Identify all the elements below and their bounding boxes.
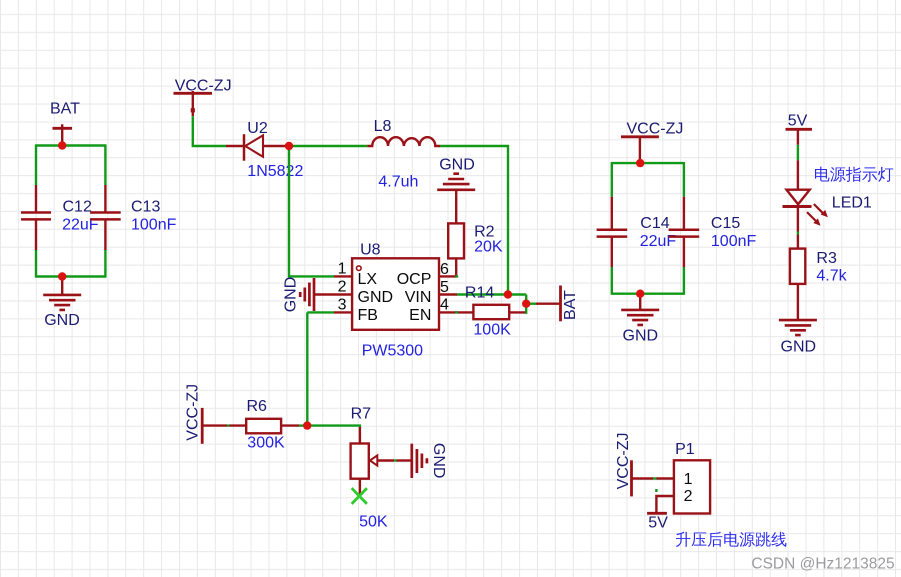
- no-connect X: [352, 488, 367, 504]
- svg-text:VIN: VIN: [405, 289, 432, 306]
- diode U2 1N5822: [226, 120, 303, 180]
- node diode output junction: [285, 142, 293, 150]
- resistor R3 4.7k: [790, 249, 848, 285]
- pin 6 OCP: [397, 261, 458, 288]
- svg-text:GND: GND: [44, 312, 80, 329]
- wire junction to R7: [307, 426, 360, 427]
- ground GND (right of R7, rotated): [412, 443, 447, 479]
- svg-text:300K: 300K: [247, 435, 285, 452]
- ground GND (left of U8, rotated): [282, 277, 314, 313]
- wire 5V to LED: [797, 145, 799, 160]
- potentiometer R7 50K: [351, 406, 412, 531]
- wire inductor to right column: [440, 146, 508, 295]
- svg-text:GND: GND: [358, 289, 394, 306]
- wire LED to R3: [797, 207, 799, 249]
- svg-text:100nF: 100nF: [711, 233, 757, 250]
- svg-text:BAT: BAT: [50, 101, 80, 118]
- capacitor C14: [597, 197, 677, 267]
- svg-text:LED1: LED1: [832, 194, 872, 211]
- pin 5 VIN: [405, 279, 457, 306]
- node bottom junction: [58, 272, 66, 280]
- ground GND (below C12/C13): [43, 277, 81, 330]
- wire top of C12/C13 loop: [36, 144, 105, 146]
- pin 4 EN: [409, 297, 473, 324]
- svg-text:1N5822: 1N5822: [247, 163, 303, 180]
- pin 2 GND: [314, 278, 393, 306]
- svg-text:R6: R6: [247, 398, 268, 415]
- capacitor C12: [21, 185, 99, 250]
- svg-text:R3: R3: [816, 250, 837, 267]
- svg-text:R7: R7: [351, 406, 372, 423]
- svg-text:U8: U8: [360, 242, 381, 259]
- wire pin5 to node: [457, 293, 526, 295]
- svg-text:C14: C14: [640, 215, 669, 232]
- svg-text:GND: GND: [623, 327, 659, 344]
- svg-text:FB: FB: [358, 307, 378, 324]
- svg-text:6: 6: [440, 261, 449, 278]
- pin 1 LX: [334, 260, 377, 288]
- wire VCC-ZJ to R6: [202, 424, 227, 426]
- wire pin3 down to divider junction: [307, 312, 334, 425]
- svg-text:CSDN @Hz1213825: CSDN @Hz1213825: [751, 556, 894, 573]
- svg-text:VCC-ZJ: VCC-ZJ: [175, 77, 232, 94]
- svg-text:C13: C13: [131, 198, 160, 215]
- wire VCC-ZJ down and to diode: [193, 116, 226, 146]
- connector P1: [674, 441, 710, 514]
- svg-text:100K: 100K: [473, 321, 511, 338]
- svg-text:4: 4: [440, 297, 449, 314]
- wire loop verticals: [612, 162, 684, 295]
- power port BAT (rotated, right of R14): [561, 286, 580, 322]
- resistor R2 20K: [448, 223, 503, 258]
- capacitor C15: [669, 197, 757, 267]
- svg-text:GND: GND: [781, 339, 817, 356]
- LED LED1: [783, 160, 872, 226]
- label 升压后电源跳线: [676, 532, 787, 547]
- svg-text:5V: 5V: [648, 514, 668, 531]
- wire VCC-ZJ to P1 pin1: [632, 477, 654, 479]
- svg-text:5: 5: [440, 279, 449, 296]
- wire P1 pin2 to 5V: [656, 496, 674, 513]
- svg-text:GND: GND: [282, 277, 299, 313]
- wire R7 bottom stub: [359, 479, 361, 496]
- node C14 bottom junction: [636, 290, 644, 298]
- node divider junction: [303, 421, 311, 429]
- svg-text:4.7k: 4.7k: [816, 268, 847, 285]
- svg-text:OCP: OCP: [397, 271, 432, 288]
- svg-text:L8: L8: [374, 118, 392, 135]
- svg-text:VCC-ZJ: VCC-ZJ: [184, 384, 201, 441]
- power port BAT (top-left): [50, 101, 80, 146]
- svg-text:3: 3: [338, 296, 347, 313]
- svg-text:LX: LX: [358, 271, 378, 288]
- wire R6 to junction: [281, 424, 299, 426]
- svg-text:PW5300: PW5300: [362, 343, 423, 360]
- capacitor C13: [90, 185, 176, 250]
- node VIN junction: [504, 290, 512, 298]
- svg-text:2: 2: [684, 488, 693, 505]
- svg-text:1: 1: [338, 260, 347, 277]
- wire R3 to ground: [797, 284, 799, 320]
- resistor R14 100K: [465, 285, 511, 339]
- svg-text:VCC-ZJ: VCC-ZJ: [615, 433, 632, 490]
- wire node to BAT port: [526, 303, 536, 305]
- wire junction down to U8 pin1: [289, 146, 334, 276]
- power port VCC-ZJ (rotated, left of R6): [184, 384, 202, 444]
- svg-text:R14: R14: [465, 285, 494, 302]
- wire top of C14/C15 loop: [612, 162, 684, 164]
- power port 5V (top right): [786, 113, 813, 145]
- pin 3 FB: [334, 296, 378, 324]
- svg-text:GND: GND: [430, 443, 447, 479]
- svg-text:EN: EN: [409, 307, 431, 324]
- power port 5V (below P1): [647, 513, 668, 531]
- svg-text:20K: 20K: [474, 238, 503, 255]
- wire bottom of C14/C15 loop: [612, 293, 684, 295]
- svg-text:C15: C15: [711, 215, 740, 232]
- svg-text:4.7uh: 4.7uh: [378, 174, 418, 191]
- node BAT junction: [58, 141, 66, 149]
- svg-text:100nF: 100nF: [131, 217, 177, 234]
- label 电源指示灯: [815, 167, 893, 182]
- svg-text:U2: U2: [247, 120, 268, 137]
- svg-text:BAT: BAT: [562, 290, 579, 320]
- svg-text:VCC-ZJ: VCC-ZJ: [627, 121, 684, 138]
- svg-text:C12: C12: [63, 198, 92, 215]
- ground GND (below C14/C15): [621, 294, 659, 345]
- wire R2 to pin6: [455, 258, 457, 276]
- node BAT tap junction: [522, 300, 530, 308]
- wire left vertical segments: [35, 144, 37, 277]
- op-amp U8 PW5300 body: [352, 242, 439, 360]
- svg-text:1: 1: [684, 471, 693, 488]
- power port VCC-ZJ (rotated, left of P1): [615, 433, 632, 497]
- wire bottom of C12/C13 loop: [36, 275, 105, 277]
- svg-text:5V: 5V: [788, 113, 808, 130]
- power port VCC-ZJ (above C14/C15): [621, 121, 683, 164]
- node C14 top junction: [636, 159, 644, 167]
- svg-text:P1: P1: [675, 441, 695, 458]
- wire node down to R14 right: [525, 295, 527, 314]
- wire junction to inductor: [289, 145, 367, 147]
- inductor L8 4.7uh: [367, 118, 440, 191]
- power port VCC-ZJ (top): [174, 77, 232, 116]
- svg-text:50K: 50K: [359, 514, 388, 531]
- ground GND (above R2, inverted): [437, 157, 475, 224]
- resistor R6 300K: [246, 398, 285, 452]
- wire right vertical segments: [104, 144, 106, 277]
- svg-text:GND: GND: [439, 157, 475, 174]
- ground GND (below R3): [779, 320, 817, 355]
- svg-text:2: 2: [338, 278, 347, 295]
